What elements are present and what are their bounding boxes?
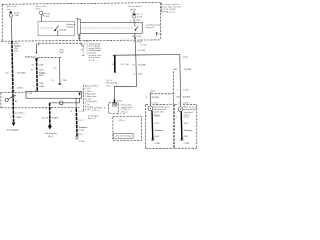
svg-text:41-B: 41-B — [154, 136, 159, 138]
svg-text:(B-c): (B-c) — [78, 134, 83, 136]
svg-text:Courtesy lamp: Courtesy lamp — [146, 23, 161, 26]
svg-text:left side: left side — [89, 51, 97, 54]
arrow on wire W3 — [48, 126, 52, 130]
svg-text:C210: C210 — [39, 70, 44, 72]
svg-text:C280a: C280a — [17, 88, 24, 90]
connector tick on wire W1 — [12, 89, 15, 91]
wire label 41 C280 — [137, 45, 147, 53]
svg-text:diagr: diagr — [89, 58, 96, 61]
svg-text:11-A: 11-A — [78, 129, 84, 132]
fuse F2 value label — [44, 14, 50, 19]
svg-text:C280: C280 — [62, 80, 68, 82]
dashed region border right L — [151, 71, 173, 104]
dashed border right — [159, 3, 161, 40]
svg-text:(ry dr) (gm): (ry dr) (gm) — [88, 115, 99, 118]
svg-text:(28-c): (28-c) — [118, 120, 125, 122]
svg-text:C280: C280 — [39, 83, 44, 85]
svg-text:14 A: 14 A — [39, 74, 44, 77]
small labels near border — [173, 69, 191, 71]
wire heavy stub into C210 box — [113, 100, 115, 104]
svg-text:41 (C2M): 41 (C2M) — [138, 64, 146, 66]
svg-text:C280: C280 — [184, 143, 190, 145]
wire W2 upper thin with junction — [35, 43, 37, 52]
splice S206 heavy takeout — [114, 55, 116, 73]
svg-text:4. Batt saver: 4. Batt saver — [85, 95, 97, 98]
svg-text:30A: 30A — [137, 16, 143, 19]
note: central vehicle fuse box text block — [161, 3, 181, 14]
label 30 C270 on wire W1 — [8, 43, 20, 45]
svg-text:C210: C210 — [117, 100, 123, 102]
pin labels 46 C270 — [132, 36, 142, 38]
small note right of GEM pin wire — [88, 115, 99, 121]
wire W1 heavy vertical — [12, 41, 14, 123]
lamp symbol in door region — [60, 50, 63, 53]
wire W-C: corner down right to rear lock module — [179, 55, 182, 107]
svg-text:anti-theft (relay): anti-theft (relay) — [115, 135, 132, 138]
wire horizontal to breaker — [50, 102, 80, 104]
wire W-C labels 7 C2M — [177, 89, 189, 91]
circuit breaker circle — [59, 101, 63, 105]
pin list text rows — [85, 85, 99, 111]
svg-text:41 (C2M): 41 (C2M) — [182, 96, 190, 98]
fuse F1 label: hot at all times — [7, 5, 17, 11]
svg-text:Run Opening: Run Opening — [106, 83, 118, 85]
svg-text:(C280a): (C280a) — [15, 113, 24, 115]
svg-text:15A: 15A — [14, 14, 19, 17]
heavy wire inside driver lock module — [151, 111, 154, 141]
svg-text:Mini fuse/junct: Mini fuse/junct — [85, 85, 99, 88]
second dashed border segment — [39, 43, 82, 47]
svg-text:Hot at all: Hot at all — [7, 5, 17, 8]
fuse F3 — [133, 10, 136, 18]
motor symbol driver lock — [148, 106, 153, 111]
svg-text:relay (2): relay (2) — [66, 26, 73, 29]
svg-text:C2M: C2M — [27, 93, 32, 95]
svg-text:C2 dr: C2 dr — [118, 113, 126, 116]
relay K2 courtesy lamp relay box — [80, 22, 142, 33]
wire W-A: relay K2 output down — [134, 33, 136, 37]
pin list bracket — [82, 85, 84, 111]
rear lock module title — [184, 106, 197, 117]
wire W2 heavy lower — [36, 58, 39, 91]
pin labels 4 C270 below border — [133, 42, 143, 44]
component inside C210 box — [113, 104, 117, 107]
splice S206 labels — [112, 64, 130, 66]
svg-text:C270: C270 — [14, 43, 19, 45]
svg-text:45 C: 45 C — [78, 120, 84, 122]
svg-text:45 BK: 45 BK — [16, 117, 22, 119]
svg-text:C270: C270 — [78, 111, 85, 113]
connector on fuse F2 wire — [40, 16, 42, 22]
svg-text:C270: C270 — [135, 20, 141, 22]
relay K3 contact in GEM — [5, 95, 17, 102]
svg-text:Rear lock act: Rear lock act — [184, 106, 197, 109]
dashed border of GEM region — [1, 91, 26, 93]
svg-text:See diagram: See diagram — [184, 129, 193, 132]
svg-text:20 (LB): 20 (LB) — [120, 64, 129, 66]
wire: into driver lock module — [149, 92, 151, 106]
wire W1 bottom note — [7, 128, 20, 131]
GEM pin wire notes — [78, 120, 87, 143]
svg-text:switch (B): switch (B) — [153, 111, 163, 114]
GEM pin labels 4 C270 — [70, 111, 85, 113]
dashed takeout wire from splice — [37, 56, 58, 58]
svg-text:C270: C270 — [136, 36, 142, 38]
svg-text:4 (48 BK): 4 (48 BK) — [92, 107, 102, 109]
dashed module box2 — [113, 117, 141, 141]
relay K2 label — [146, 23, 161, 29]
fuse F2 — [40, 11, 44, 16]
wire W1 labels 58 / 20 C280 — [5, 72, 25, 74]
svg-text:41 (C2M): 41 (C2M) — [184, 69, 192, 71]
wire W1 bottom labels — [10, 113, 25, 119]
wire W-A lower: corner to C210 box — [114, 55, 136, 100]
svg-text:3. Run/start: 3. Run/start — [85, 92, 96, 95]
svg-text:C270: C270 — [140, 45, 147, 47]
driver lock module title — [153, 105, 169, 116]
wire: takeout drop — [58, 58, 61, 85]
svg-text:51 B: 51 B — [154, 123, 159, 125]
svg-text:C270: C270 — [154, 116, 160, 118]
svg-text:C2M: C2M — [39, 64, 44, 66]
labels above driver lock module — [146, 90, 159, 104]
svg-text:Driver lock actuat: Driver lock actuat — [153, 105, 169, 108]
svg-text:C280: C280 — [78, 141, 85, 143]
svg-text:45 (BK): 45 (BK) — [51, 117, 58, 119]
splice S201 takeout — [81, 41, 90, 56]
svg-text:41-B: 41-B — [184, 136, 189, 138]
svg-text:(batt): (batt) — [130, 8, 136, 11]
dashed box: driver lock module — [146, 105, 174, 149]
arrow inside GEM rect — [79, 93, 81, 96]
svg-text:20 (C280): 20 (C280) — [17, 72, 26, 74]
svg-text:(B-c): (B-c) — [48, 136, 53, 138]
svg-text:See 45: See 45 — [42, 117, 49, 119]
splice dot on wire W-A — [134, 37, 136, 39]
dashed border bottom GEM right part — [51, 107, 80, 109]
svg-text:C270: C270 — [184, 116, 190, 118]
wire W1 arrow — [12, 123, 16, 127]
wire W-A continues across border — [134, 38, 137, 55]
svg-text:time: time — [7, 8, 12, 11]
svg-text:S2-1: S2-1 — [106, 80, 113, 82]
splice S206 note — [106, 80, 118, 88]
dashed border left GEM — [0, 92, 2, 108]
svg-text:C270: C270 — [137, 42, 143, 44]
svg-text:Battery sav: Battery sav — [66, 23, 76, 26]
svg-text:relay (2): relay (2) — [146, 26, 154, 29]
wire W-C labels 4 / C280 — [178, 103, 188, 105]
motor symbol rear lock — [178, 107, 183, 112]
wire: GEM pin down heavy — [75, 98, 78, 139]
fuse F3 label: hot at all times — [128, 5, 142, 11]
driver lock wire labels — [145, 116, 163, 145]
svg-text:41 (C2M): 41 (C2M) — [151, 97, 159, 99]
fuse F1 value label — [14, 13, 20, 18]
svg-text:(28-c): (28-c) — [92, 110, 100, 112]
wire W1 labels 4 C280a — [10, 88, 25, 90]
svg-text:(2C7-J2): (2C7-J2) — [60, 29, 67, 31]
svg-text:C2 (1): C2 (1) — [182, 57, 188, 59]
wire W-C labels 464 / 41 C2M — [176, 96, 190, 98]
GEM module rect — [26, 91, 82, 98]
wire W2 labels 1 C280a — [33, 86, 45, 88]
pin label 5 / C270 — [130, 20, 141, 22]
wire W1 notes: see run/acc diagram — [14, 45, 21, 53]
svg-text:See diagram: See diagram — [78, 126, 87, 129]
wire: fuse F3 down to relay K2 — [133, 19, 135, 23]
svg-text:Run/Acc diagram: Run/Acc diagram — [25, 56, 37, 59]
dashed border left — [1, 4, 3, 41]
wire W-A label C210 — [134, 73, 144, 75]
left module labels above box2 — [92, 107, 102, 112]
svg-text:51 B: 51 B — [184, 123, 189, 125]
wire W-A labels 54 / 41 C280 — [132, 64, 146, 66]
svg-text:Run (Keyless): Run (Keyless) — [45, 133, 57, 135]
wire W2 labels 40 C210 — [31, 70, 46, 86]
svg-text:C210: C210 — [138, 73, 144, 75]
relay K1 label — [60, 23, 77, 31]
svg-text:(batt) 2: (batt) 2 — [88, 117, 97, 120]
wire W3 heavy down from junction — [49, 103, 51, 126]
wire W3 bottom note — [45, 133, 57, 138]
horizontal wire W-H — [113, 54, 180, 57]
svg-text:9. (B-): 9. (B-) — [85, 109, 91, 111]
component rect inside box2 — [113, 133, 133, 138]
svg-text:See fuse diagram: See fuse diagram — [7, 128, 20, 131]
svg-text:time: time — [36, 8, 41, 11]
wire from bar bottom, with connector — [78, 34, 81, 41]
svg-text:(2F-B,C2-1): (2F-B,C2-1) — [163, 12, 175, 14]
relay K1 battery saver relay box — [38, 22, 75, 36]
dashed box: rear lock module — [175, 104, 197, 148]
heavy wire inside rear lock module — [180, 112, 183, 141]
svg-text:with door (B): with door (B) — [184, 108, 196, 111]
C210 box notes — [121, 103, 133, 113]
rear lock wire labels — [176, 116, 193, 144]
svg-text:41_C2M: 41_C2M — [137, 50, 145, 52]
svg-text:C280a: C280a — [38, 86, 45, 88]
connector bar of SJB — [77, 18, 81, 34]
C210 dashed component box — [109, 103, 119, 114]
svg-text:Hot at all time: Hot at all time — [128, 5, 142, 8]
fuse F1 — [9, 11, 12, 17]
dashed border bottom — [1, 40, 160, 41]
wire from GEM rect down — [79, 98, 81, 103]
arrow on wire W2 — [35, 58, 38, 62]
svg-text:C280: C280 — [154, 143, 160, 145]
svg-text:Central vehicle: Central vehicle — [163, 3, 181, 6]
connector tick on wire W2 — [35, 89, 38, 91]
wire W3 label pair — [42, 117, 59, 119]
fuse F2 label: hot at all times — [36, 5, 47, 11]
svg-text:P2-1: P2-1 — [106, 85, 112, 87]
takeout wire labels — [51, 67, 67, 82]
dashed border bottom GEM — [1, 107, 49, 109]
wire: fuse F1 to dashed border — [10, 17, 13, 41]
svg-text:See diagram: See diagram — [154, 129, 163, 132]
fuse F3 value label — [137, 14, 143, 18]
relay K2 right pin wire — [156, 32, 163, 36]
note: smart junction box text block — [87, 42, 103, 62]
svg-text:7. Gr: 7. Gr — [85, 103, 90, 106]
svg-text:with door lock: with door lock — [153, 108, 167, 111]
dashed border top: smart junction box region — [2, 3, 161, 5]
wire W3 labels — [45, 107, 54, 110]
svg-text:switches: switches — [184, 111, 194, 114]
junction dot S-W2 — [36, 52, 38, 54]
svg-text:See diagram: See diagram — [39, 71, 46, 74]
svg-text:15A: 15A — [44, 15, 49, 18]
svg-text:C2M: C2M — [183, 89, 189, 91]
wire W2 labels 31 C280 — [31, 64, 43, 66]
